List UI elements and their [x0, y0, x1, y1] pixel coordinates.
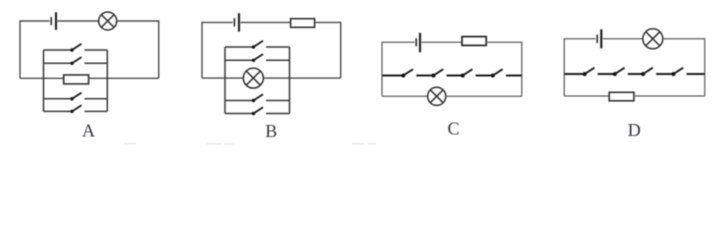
wire C top-left segment	[382, 41, 415, 43]
wire C right vertical	[521, 42, 523, 97]
wire C bottom-right segment	[446, 95, 522, 97]
wire A right vertical	[158, 20, 160, 78]
box A left rail	[43, 50, 45, 111]
wire C battery-to-resistor	[422, 41, 463, 43]
resistor C body	[462, 37, 486, 46]
switch C4 blade	[493, 69, 503, 75]
switch B3 wire left	[225, 100, 254, 102]
switch B1 contact dot	[252, 45, 255, 48]
wire B top-left segment	[202, 21, 233, 23]
resistor B body	[291, 19, 315, 28]
switch B1 wire right	[266, 46, 290, 48]
switch A2 wire left	[44, 62, 73, 64]
svg-text:D: D	[628, 120, 641, 140]
battery B long plate	[238, 13, 240, 31]
switch B3 wire right	[266, 100, 290, 102]
wire D left vertical	[563, 38, 565, 96]
switch A1 contact dot	[70, 48, 73, 51]
battery C short plate	[415, 38, 417, 46]
wire D right vertical	[704, 38, 706, 96]
box B left rail	[224, 47, 226, 114]
lamp A circle	[99, 12, 117, 30]
svg-text:A: A	[82, 120, 95, 140]
switch D3 segment	[628, 73, 643, 75]
lamp B circle	[243, 68, 263, 88]
switch C3 segment	[447, 75, 463, 77]
switch D2 blade	[615, 68, 625, 74]
box B right rail	[289, 47, 291, 114]
battery B short plate	[233, 18, 235, 26]
wire D lamp-to-corner	[663, 38, 705, 40]
wire C resistor-to-corner	[486, 41, 522, 43]
resistor D body	[609, 92, 634, 101]
resistor A body	[64, 75, 89, 84]
svg-text:C: C	[447, 119, 459, 139]
switch A2 blade	[72, 57, 82, 63]
switch A4 wire left	[44, 110, 73, 112]
wire A battery-to-lamp	[58, 20, 99, 22]
switch B2 wire right	[266, 59, 290, 61]
switch A1 wire right	[85, 49, 108, 51]
switch A2 wire right	[85, 62, 108, 64]
switch A4 contact dot	[70, 110, 73, 113]
switch A2 contact dot	[70, 62, 73, 65]
switch A3 blade	[72, 93, 82, 99]
battery A short plate	[50, 17, 52, 25]
wire C left vertical	[381, 42, 383, 97]
lamp C cross	[430, 90, 443, 103]
wire D top-left segment	[564, 38, 595, 40]
switch C1 contact dot	[401, 74, 405, 78]
lamp D cross	[646, 32, 660, 46]
svg-text:B: B	[265, 121, 277, 141]
wire A top-left segment	[20, 20, 50, 22]
switch B4 contact dot	[252, 112, 255, 115]
switch A1 blade	[72, 44, 82, 50]
wire B middle line left of lamp	[202, 77, 243, 79]
switch C3 blade	[463, 69, 473, 75]
switch D1 segment left	[564, 73, 585, 75]
battery D long plate	[600, 29, 602, 48]
wire C middle last segment	[506, 75, 522, 77]
wire D bottom-left segment	[564, 95, 609, 97]
wire B resistor-to-corner	[315, 21, 341, 23]
wire A middle line right of resistor	[89, 77, 159, 79]
switch A3 contact dot	[70, 97, 73, 100]
wire B middle line right of lamp	[263, 77, 340, 79]
switch B1 blade	[254, 41, 264, 47]
switch C3 contact dot	[461, 74, 465, 78]
switch C1 segment left	[382, 75, 403, 77]
switch B2 wire left	[225, 59, 254, 61]
switch B4 wire left	[225, 113, 254, 115]
switch D4 contact dot	[672, 72, 676, 76]
switch D4 segment	[656, 73, 673, 75]
battery A long plate	[55, 12, 57, 30]
switch C2 contact dot	[432, 74, 436, 78]
switch B4 blade	[254, 107, 264, 113]
switch D1 blade	[585, 68, 595, 74]
switch B2 blade	[254, 54, 264, 60]
wire B battery-to-resistor	[241, 21, 291, 23]
switch A4 wire right	[85, 110, 108, 112]
switch D3 contact dot	[641, 72, 645, 76]
switch A3 wire right	[85, 98, 108, 100]
lamp B cross	[246, 71, 260, 85]
switch B4 wire right	[266, 113, 290, 115]
wire C bottom-left segment	[382, 95, 428, 97]
switch D4 blade	[674, 68, 684, 74]
box A right rail	[106, 50, 108, 111]
wire D bottom-right segment	[634, 95, 705, 97]
switch D1 contact dot	[583, 72, 587, 76]
switch C4 segment	[476, 75, 493, 77]
wire D battery-to-lamp	[603, 38, 643, 40]
switch B3 contact dot	[252, 99, 255, 102]
lamp D circle	[643, 29, 663, 49]
wire B left vertical	[201, 22, 203, 78]
battery C long plate	[419, 33, 421, 53]
wire A lamp-to-corner	[117, 20, 159, 22]
wire A left vertical	[19, 20, 21, 78]
switch D2 segment	[598, 73, 615, 75]
wire B right vertical	[340, 22, 342, 78]
switch A3 wire left	[44, 98, 73, 100]
switch A1 wire left	[44, 49, 73, 51]
switch A4 blade	[72, 105, 82, 111]
switch B1 wire left	[225, 46, 254, 48]
switch C2 blade	[434, 69, 444, 75]
faint scan smudges along bottom	[124, 143, 376, 146]
switch D2 contact dot	[613, 72, 617, 76]
battery D short plate	[596, 35, 598, 43]
switch C2 segment	[416, 75, 433, 77]
switch C4 contact dot	[491, 74, 495, 78]
lamp C circle	[428, 87, 446, 105]
switch D3 blade	[643, 68, 653, 74]
wire A middle line left of resistor	[20, 77, 64, 79]
switch B2 contact dot	[252, 59, 255, 62]
switch C1 blade	[403, 69, 413, 75]
wire D middle last segment	[687, 73, 705, 75]
switch B3 blade	[254, 94, 264, 100]
lamp A cross	[101, 15, 114, 28]
